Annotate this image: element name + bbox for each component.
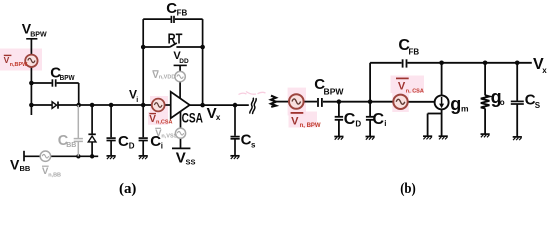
- svg-text:C: C: [344, 111, 356, 128]
- svg-text:S: S: [535, 101, 541, 110]
- svg-text:FB: FB: [409, 48, 420, 57]
- svg-text:V: V: [291, 116, 299, 128]
- svg-text:i: i: [161, 142, 163, 151]
- svg-text:n,VDD: n,VDD: [159, 75, 176, 81]
- svg-text:n,BB: n,BB: [48, 172, 61, 178]
- svg-text:BB: BB: [66, 142, 76, 149]
- svg-text:x: x: [542, 66, 547, 75]
- svg-text:(b): (b): [400, 181, 416, 197]
- svg-text:V: V: [398, 80, 406, 92]
- svg-text:n,BPW: n,BPW: [10, 62, 29, 68]
- svg-text:n,CSA: n,CSA: [156, 120, 173, 126]
- svg-text:V: V: [10, 157, 20, 173]
- svg-text:V: V: [176, 149, 186, 166]
- svg-text:i: i: [136, 97, 138, 104]
- svg-text:C: C: [166, 0, 177, 17]
- svg-text:g: g: [450, 94, 461, 114]
- svg-text:BB: BB: [20, 164, 31, 173]
- svg-text:C: C: [118, 133, 129, 150]
- svg-text:FB: FB: [177, 8, 188, 17]
- svg-text:x: x: [216, 113, 221, 122]
- svg-text:DD: DD: [179, 58, 189, 65]
- svg-text:i: i: [384, 119, 386, 128]
- svg-text:m: m: [461, 104, 469, 114]
- svg-text:o: o: [500, 98, 505, 107]
- svg-text:n, BPW: n, BPW: [300, 123, 321, 129]
- svg-text:n, CSA: n, CSA: [406, 89, 424, 95]
- svg-text:(a): (a): [119, 181, 136, 197]
- svg-text:D: D: [355, 119, 361, 128]
- svg-text:D: D: [129, 142, 135, 151]
- svg-text:s: s: [251, 141, 256, 150]
- svg-text:C: C: [241, 132, 252, 149]
- svg-text:SS: SS: [186, 158, 196, 167]
- svg-text:n,VSS: n,VSS: [161, 133, 177, 139]
- svg-text:C: C: [373, 111, 385, 128]
- svg-text:CSA: CSA: [182, 109, 203, 125]
- svg-text:BPW: BPW: [30, 29, 47, 38]
- svg-text:BPW: BPW: [324, 88, 344, 97]
- svg-text:BPW: BPW: [60, 73, 76, 82]
- svg-text:RT: RT: [168, 32, 183, 48]
